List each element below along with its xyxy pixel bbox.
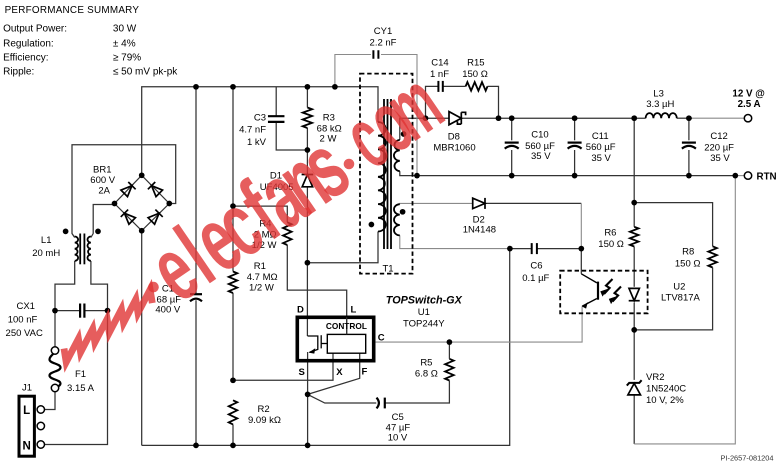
svg-text:250 VAC: 250 VAC	[6, 328, 43, 339]
svg-text:1/2 W: 1/2 W	[249, 282, 274, 293]
svg-text:D: D	[297, 305, 304, 316]
svg-text:6.8 Ω: 6.8 Ω	[415, 368, 438, 379]
svg-text:10 V, 2%: 10 V, 2%	[646, 395, 684, 406]
svg-text:L3: L3	[653, 89, 664, 100]
svg-text:1N5240C: 1N5240C	[646, 384, 686, 395]
svg-text:2.2 nF: 2.2 nF	[370, 38, 397, 49]
svg-text:PERFORMANCE SUMMARY: PERFORMANCE SUMMARY	[5, 5, 140, 16]
svg-text:400 V: 400 V	[155, 305, 180, 316]
svg-text:F1: F1	[75, 369, 86, 380]
svg-text:X: X	[336, 367, 343, 378]
svg-text:3.15 A: 3.15 A	[67, 383, 95, 394]
svg-text:2A: 2A	[98, 186, 110, 197]
svg-text:Efficiency:: Efficiency:	[3, 52, 48, 63]
svg-text:2.5 A: 2.5 A	[738, 99, 761, 110]
svg-text:≤ 50 mV pk-pk: ≤ 50 mV pk-pk	[113, 67, 178, 78]
svg-text:Ripple:: Ripple:	[3, 67, 34, 78]
svg-text:± 4%: ± 4%	[113, 39, 136, 50]
svg-text:30 W: 30 W	[113, 23, 137, 34]
svg-text:BR1: BR1	[93, 165, 111, 176]
svg-text:35 V: 35 V	[710, 153, 730, 164]
svg-text:RTN: RTN	[757, 171, 777, 182]
svg-text:TOP244Y: TOP244Y	[403, 319, 445, 330]
svg-text:C12: C12	[710, 131, 727, 142]
svg-text:R6: R6	[604, 227, 616, 238]
svg-text:12 V @: 12 V @	[732, 89, 764, 100]
svg-text:U2: U2	[673, 281, 685, 292]
svg-text:100 nF: 100 nF	[8, 314, 38, 325]
svg-text:9.09 kΩ: 9.09 kΩ	[248, 415, 281, 426]
svg-text:35 V: 35 V	[591, 153, 611, 164]
svg-text:C11: C11	[592, 131, 609, 142]
svg-text:J1: J1	[22, 383, 32, 394]
svg-text:U1: U1	[418, 307, 430, 318]
svg-text:R2: R2	[258, 404, 270, 415]
svg-text:C5: C5	[392, 412, 404, 423]
svg-text:1 nF: 1 nF	[430, 69, 449, 80]
svg-text:TOPSwitch-GX: TOPSwitch-GX	[386, 294, 463, 306]
svg-text:L: L	[23, 405, 30, 417]
svg-text:R8: R8	[682, 246, 694, 257]
svg-text:R15: R15	[467, 57, 484, 68]
svg-text:0.1 µF: 0.1 µF	[522, 273, 549, 284]
svg-text:L1: L1	[41, 235, 52, 246]
svg-text:Output Power:: Output Power:	[3, 23, 67, 34]
svg-text:R5: R5	[420, 357, 432, 368]
svg-text:Regulation:: Regulation:	[3, 39, 54, 50]
svg-text:CONTROL: CONTROL	[326, 321, 367, 331]
svg-text:150 Ω: 150 Ω	[675, 258, 701, 269]
svg-text:150 Ω: 150 Ω	[598, 239, 624, 250]
svg-text:VR2: VR2	[646, 372, 664, 383]
svg-text:C10: C10	[531, 130, 548, 141]
svg-text:220 µF: 220 µF	[704, 143, 734, 154]
svg-text:PI-2657-081204: PI-2657-081204	[721, 453, 774, 462]
svg-text:L: L	[351, 305, 357, 316]
svg-text:C: C	[378, 332, 385, 343]
svg-text:C14: C14	[431, 57, 448, 68]
svg-text:3.3 µH: 3.3 µH	[646, 99, 674, 110]
svg-text:N: N	[22, 440, 30, 452]
svg-text:CX1: CX1	[16, 301, 34, 312]
svg-text:≥ 79%: ≥ 79%	[113, 52, 141, 63]
svg-text:LTV817A: LTV817A	[661, 293, 701, 304]
svg-text:CY1: CY1	[374, 26, 392, 37]
svg-text:150 Ω: 150 Ω	[462, 69, 488, 80]
svg-text:10 V: 10 V	[388, 433, 408, 444]
svg-text:20 mH: 20 mH	[32, 248, 60, 259]
svg-text:4.7 nF: 4.7 nF	[239, 124, 266, 135]
svg-text:1N4148: 1N4148	[463, 224, 496, 235]
svg-text:560 µF: 560 µF	[586, 142, 616, 153]
svg-text:35 V: 35 V	[531, 151, 551, 162]
svg-text:C3: C3	[254, 112, 266, 123]
svg-text:T1: T1	[382, 263, 393, 274]
svg-text:S: S	[299, 367, 305, 378]
svg-text:F: F	[361, 367, 367, 378]
svg-text:C6: C6	[530, 260, 542, 271]
